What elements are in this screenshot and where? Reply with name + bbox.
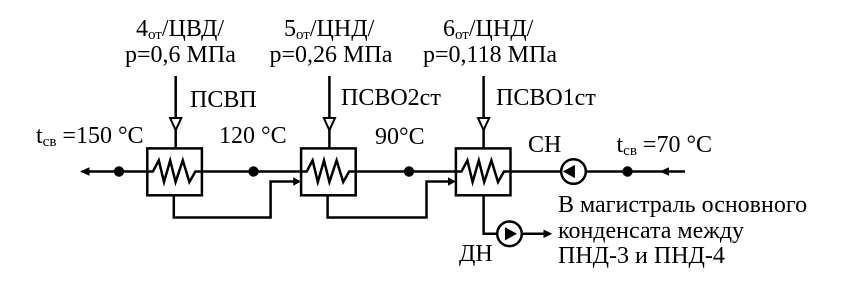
arrowhead: ДН outlet (pointing right) <box>544 230 553 238</box>
wire: steam line 2 to ПСВО2ст <box>328 76 331 149</box>
pump СН (circle with leftward triangle) <box>561 159 586 184</box>
label: extraction 5 pressure <box>270 43 393 67</box>
heat exchanger ПСВП (box with coil) <box>147 148 202 195</box>
node: junction dot right of СН pump <box>622 166 632 176</box>
node: junction dot between ПСВО2ст and ПСВО1ст <box>404 166 414 176</box>
label: ПСВО1ст <box>496 86 596 110</box>
arrowhead: steam 3 (hollow, pointing down) <box>478 118 489 130</box>
wire: steam line 1 to ПСВП <box>174 76 177 149</box>
label: extraction 6 header <box>443 17 533 44</box>
label: СН pump <box>528 133 561 157</box>
arrowhead: drain 2 into ПСВО1ст <box>448 177 456 185</box>
label: discharge note line 2 <box>558 219 744 243</box>
label: 120 C <box>219 124 287 148</box>
arrowhead: steam 2 (hollow, pointing down) <box>324 118 335 130</box>
heat exchanger ПСВО1ст (box with coil) <box>456 148 511 195</box>
pump ДН (circle with rightward triangle) <box>497 222 522 247</box>
arrowhead: steam 1 (hollow, pointing down) <box>170 118 181 130</box>
wire: drain from ПСВО1ст down to ДН pump <box>484 195 498 234</box>
label: t_sv = 150 C <box>36 124 144 151</box>
arrowhead: water inlet (right side, pointing left) <box>660 167 670 176</box>
label: extraction 5 header <box>284 17 374 44</box>
label: t_sv = 70 C <box>617 133 713 160</box>
label: ДН pump <box>459 242 493 266</box>
label: discharge note line 1 <box>558 193 807 217</box>
node: junction dot between ПСВП and ПСВО2ст <box>248 166 258 176</box>
label: ПСВП <box>190 88 257 112</box>
label: ПСВО2ст <box>341 86 441 110</box>
label: 90 C <box>375 125 425 149</box>
wire: drain from ПСВО2ст to ПСВО1ст <box>328 182 449 218</box>
label: extraction 4 header <box>136 17 224 44</box>
arrowhead: drain 1 into ПСВО2ст <box>293 177 301 185</box>
arrowhead: water outlet (left end, pointing left) <box>80 167 90 176</box>
wire: ДН pump outlet <box>522 233 545 236</box>
label: extraction 6 pressure <box>423 43 557 67</box>
label: discharge note line 3 <box>558 244 725 268</box>
wire: drain from ПСВП to ПСВО2ст <box>174 182 294 218</box>
label: extraction 4 pressure <box>125 43 236 67</box>
heat exchanger ПСВО2ст (box with coil) <box>301 148 356 195</box>
node: junction dot left of ПСВП <box>114 166 124 176</box>
wire: main heating-water line <box>82 170 685 173</box>
wire: steam line 3 to ПСВО1ст <box>482 76 485 149</box>
